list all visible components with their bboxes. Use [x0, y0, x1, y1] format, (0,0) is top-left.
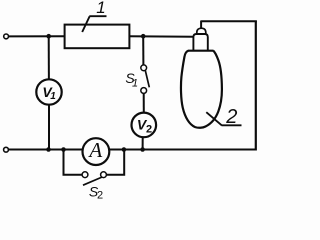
switch S1	[141, 65, 150, 94]
ammeter A	[83, 138, 110, 165]
wire top right horizontal	[201, 20, 257, 22]
label S2	[89, 183, 103, 201]
wire lamp cap stem	[200, 21, 202, 30]
junction bottom at V1 branch	[46, 147, 51, 152]
svg-text:1: 1	[96, 0, 105, 17]
wire right side vertical	[255, 21, 257, 150]
junction bottom at V2 branch	[140, 147, 145, 152]
label 2 leader line	[206, 112, 241, 125]
wire top rail from terminal to resistor	[9, 35, 66, 37]
lamp 2 cap	[188, 28, 213, 51]
svg-text:1: 1	[132, 77, 138, 89]
wire S2 bypass right rise	[106, 150, 124, 175]
svg-text:A: A	[87, 138, 102, 162]
wire V2 to bottom rail	[142, 137, 144, 150]
wire V1 branch vertical	[48, 36, 50, 80]
terminal top-left	[4, 34, 9, 39]
svg-text:1: 1	[50, 91, 56, 102]
lamp 2 bulb	[181, 51, 222, 128]
wire S2 bypass left drop	[64, 150, 83, 175]
terminal bottom-left	[4, 147, 9, 152]
svg-text:2: 2	[146, 124, 152, 136]
wire V1 to bottom rail	[48, 104, 50, 150]
resistor 1 (ballast box)	[65, 25, 130, 49]
voltmeter V2	[132, 113, 157, 138]
svg-text:2: 2	[97, 190, 103, 199]
voltmeter V1	[36, 79, 61, 104]
switch S2	[82, 172, 106, 185]
label S1	[125, 70, 138, 89]
junction bottom at S2 right	[122, 147, 127, 152]
wire S1 to V2	[143, 93, 145, 113]
wire bottom rail	[9, 149, 256, 151]
junction top at V1 branch	[46, 34, 51, 39]
junction bottom at S2 left	[61, 147, 66, 152]
label 1 leader line	[82, 16, 106, 32]
wire S1 branch upper	[142, 36, 144, 65]
wire from resistor to lamp cap	[129, 35, 195, 37]
svg-text:2: 2	[225, 106, 237, 128]
junction top at S1 branch	[141, 34, 146, 39]
